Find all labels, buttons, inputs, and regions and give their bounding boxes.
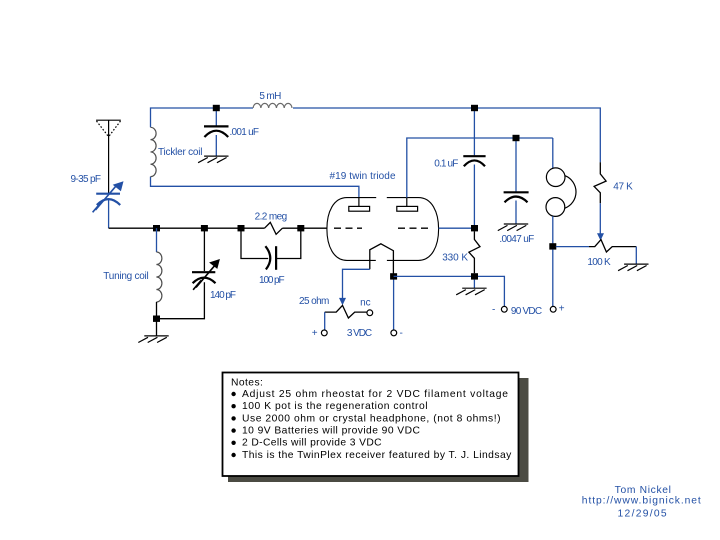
svg-text:Tickler coil: Tickler coil: [158, 147, 203, 158]
svg-text:100 pF: 100 pF: [259, 275, 285, 286]
svg-text:2 D-Cells will provide 3 VDC: 2 D-Cells will provide 3 VDC: [242, 438, 382, 449]
terminal + 90VDC: [550, 306, 556, 312]
terminal nc: [367, 310, 373, 316]
headphone: [552, 138, 554, 168]
svg-text:47 K: 47 K: [613, 182, 633, 193]
wire: 47K bottom to pot wiper: [599, 203, 601, 234]
filament: [370, 244, 394, 277]
resistor 330 K: [469, 231, 480, 273]
junction bus/2.2meg left: [238, 225, 245, 231]
svg-text:25 ohm: 25 ohm: [299, 296, 329, 307]
variable capacitor 140 pF: [203, 228, 205, 271]
potentiometer 100 K: [556, 246, 589, 248]
junction tuning coil bottom: [153, 316, 160, 322]
svg-text:-: -: [400, 328, 403, 339]
svg-text:Adjust 25 ohm rheostat for 2 V: Adjust 25 ohm rheostat for 2 VDC filamen…: [242, 389, 508, 400]
svg-text:100 K: 100 K: [587, 257, 611, 268]
wire: left filament to rheostat: [343, 269, 370, 299]
resistor 2.2 meg: [265, 222, 283, 234]
terminal - 90VDC: [501, 306, 507, 312]
svg-text:2.2 meg: 2.2 meg: [255, 212, 288, 223]
wire: right filament to - terminal: [393, 276, 395, 330]
notes box shadow: [228, 378, 529, 482]
capacitor .001 uF: [215, 108, 217, 126]
svg-text:Use 2000 ohm or crystal headph: Use 2000 ohm or crystal headphone, (not …: [242, 413, 501, 424]
junction grid right / 330K top: [471, 225, 478, 231]
capacitor 100 pF legs: [241, 228, 301, 258]
tuning coil: [156, 252, 162, 302]
arrowhead pot wiper: [597, 233, 604, 240]
svg-text:.001 uF: .001 uF: [230, 127, 260, 138]
svg-text:5 mH: 5 mH: [259, 91, 281, 102]
svg-text:10 9V Batteries will provide 9: 10 9V Batteries will provide 90 VDC: [242, 426, 420, 437]
ground right of 100K: [618, 264, 648, 271]
ground below 330K: [473, 280, 475, 289]
anode plate right: [397, 206, 418, 211]
wire: right anode up and right (y=138): [407, 138, 553, 198]
tube envelope #19 twin triode: [327, 198, 439, 261]
wire: y=276 filament to 330K bottom and -90V: [394, 276, 505, 306]
wire: below 9-35 pF to bus corner: [108, 200, 110, 228]
notes box: [223, 373, 519, 477]
junction bus/tuning coil: [153, 225, 160, 231]
wire: tuning coil bottom to junction and to 140pF bottom: [157, 282, 205, 336]
antenna: [96, 120, 121, 193]
rheostat 25 ohm: [325, 305, 367, 318]
svg-text:90 VDC: 90 VDC: [511, 306, 542, 317]
svg-text:Tom Nickel: Tom Nickel: [615, 485, 671, 496]
wire: rheostat left to + terminal: [324, 312, 326, 330]
junction .001/top wire: [213, 105, 220, 111]
ground below tuning coil: [138, 336, 168, 343]
svg-text:nc: nc: [360, 298, 371, 309]
wire: tuning coil top: [156, 228, 158, 252]
junction 0.1uF / top wire: [471, 105, 478, 111]
ground below .001 uF: [198, 156, 228, 163]
svg-text:+: +: [559, 304, 565, 315]
anode plate left: [349, 206, 370, 211]
wire: pot right to ground: [635, 247, 637, 265]
wire: right grid to junction: [439, 227, 475, 229]
resistor 47 K: [594, 162, 606, 203]
variable capacitor 9-35 pF: [93, 185, 121, 213]
svg-text:-: -: [492, 304, 495, 315]
terminal - 3VDC: [391, 330, 397, 336]
ground below .0047: [498, 224, 528, 231]
junction filament right / 276 wire: [390, 273, 397, 279]
main bus wire (grid line): [109, 222, 328, 234]
svg-text:140 pF: 140 pF: [210, 290, 236, 301]
junction 330K bottom: [471, 273, 478, 279]
svg-text:This is the TwinPlex receiver: This is the TwinPlex receiver featured b…: [242, 450, 512, 461]
capacitor 0.1 uF: [473, 111, 475, 155]
svg-text:12/29/05: 12/29/05: [618, 508, 667, 519]
svg-text:+: +: [312, 328, 318, 339]
junction bus/2.2meg right: [297, 225, 304, 231]
junction bus/140pF: [201, 225, 208, 231]
wire: down to +90V terminal: [552, 249, 554, 306]
junction .0047 / y=138 wire: [513, 135, 520, 141]
grid right (dashed): [398, 227, 432, 229]
svg-text:0.1 uF: 0.1 uF: [434, 158, 458, 169]
svg-text:Tuning coil: Tuning coil: [103, 271, 148, 282]
svg-text:9-35 pF: 9-35 pF: [71, 174, 102, 185]
svg-text:.0047 uF: .0047 uF: [499, 234, 534, 245]
wire: top bus right of 5mH to 47K corner: [293, 108, 600, 162]
junction headphone / pot / +90V: [549, 243, 556, 249]
capacitor 100 pF: [265, 246, 270, 269]
capacitor .0047 uF: [515, 141, 517, 192]
svg-text:#19 twin triode: #19 twin triode: [330, 171, 396, 182]
terminal + 3VDC: [321, 330, 327, 336]
svg-text:330 K: 330 K: [442, 253, 468, 264]
svg-text:100 K pot is the regeneration: 100 K pot is the regeneration control: [242, 401, 428, 412]
svg-text:http://www.bignick.net: http://www.bignick.net: [582, 496, 701, 507]
grid left (dashed): [334, 227, 362, 229]
wire: tickler loop (top-left corner, bottom and to left anode): [151, 108, 359, 198]
inductor 5 mH: [253, 103, 292, 108]
credit text: [582, 485, 701, 520]
svg-text:3 VDC: 3 VDC: [347, 328, 372, 339]
svg-text:Notes:: Notes:: [231, 377, 263, 388]
tickler coil: [151, 127, 157, 176]
notes text: [231, 377, 512, 461]
arrowhead rheostat wiper: [339, 298, 346, 305]
